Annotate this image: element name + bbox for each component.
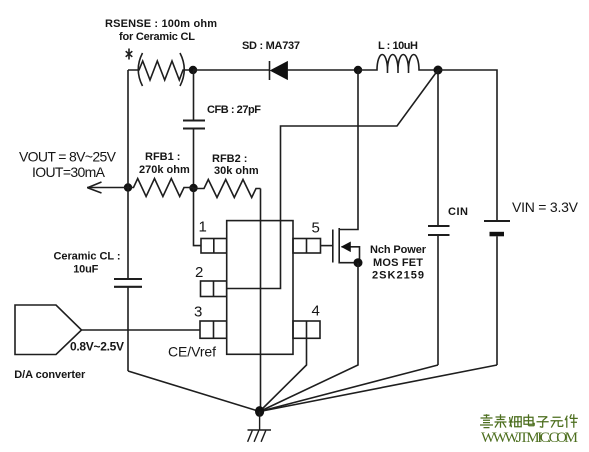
wire: CIN return diagonal to ground: [260, 365, 438, 412]
svg-text:Nch Power: Nch Power: [370, 244, 427, 256]
diode SD (MA737): [242, 40, 300, 80]
wire: top rail to VIN: [438, 70, 497, 221]
svg-text:0.8V~2.5V: 0.8V~2.5V: [70, 340, 124, 354]
node: switch node junction: [354, 66, 362, 74]
svg-text:CE/Vref: CE/Vref: [168, 344, 216, 360]
node: ground junction: [255, 406, 264, 417]
D/A converter block: [14, 305, 124, 381]
transistor Q1 Nch Power MOS FET 2SK2159: [321, 70, 427, 282]
svg-text:for Ceramic CL: for Ceramic CL: [119, 31, 195, 43]
node: L/VIN junction: [434, 66, 443, 75]
wire: CL diagonal to ground: [128, 371, 260, 412]
resistor RFB1 270k: [128, 151, 194, 197]
svg-text:2SK2159: 2SK2159: [372, 270, 424, 282]
svg-text:1: 1: [199, 219, 207, 236]
svg-text:IOUT=30mA: IOUT=30mA: [32, 164, 106, 180]
svg-text:2: 2: [195, 264, 203, 281]
pin 1: [194, 188, 227, 253]
svg-text:CIN: CIN: [448, 206, 468, 218]
capacitor Ceramic CL 10uF: [54, 251, 143, 372]
ground: [248, 412, 272, 442]
svg-text:L : 10uH: L : 10uH: [378, 40, 418, 52]
svg-text:5: 5: [312, 220, 320, 237]
svg-text:4: 4: [312, 303, 320, 320]
node: FB node junction: [189, 184, 197, 192]
svg-text:WWW.JTMIC.COM: WWW.JTMIC.COM: [481, 430, 578, 446]
svg-text:RFB2 :: RFB2 :: [212, 153, 247, 165]
pin 2: [195, 264, 227, 297]
pin 5: [293, 220, 321, 254]
pin 3: [168, 304, 227, 360]
svg-text:VIN = 3.3V: VIN = 3.3V: [512, 199, 579, 215]
op-amp U1 (IC body): [227, 221, 293, 355]
VOUT output arrow: [19, 149, 128, 194]
capacitor CIN: [428, 70, 468, 365]
wire: L junction to pin 2 (over IC): [227, 70, 438, 289]
node: VOUT junction: [124, 183, 132, 191]
wire: source to ground: [260, 263, 358, 412]
svg-text:RSENSE : 100m ohm: RSENSE : 100m ohm: [105, 18, 217, 30]
inductor L 10uH: [358, 40, 438, 73]
svg-text:VOUT = 8V~25V: VOUT = 8V~25V: [19, 149, 117, 165]
watermark: WWW.JTMIC.COM: [481, 430, 578, 446]
capacitor CFB 27pF: [183, 70, 261, 188]
battery VIN 3.3V: [484, 199, 579, 365]
svg-text:CFB : 27pF: CFB : 27pF: [207, 104, 261, 116]
svg-text:270k ohm: 270k ohm: [139, 164, 190, 176]
svg-text:30k ohm: 30k ohm: [214, 165, 259, 177]
svg-text:10uF: 10uF: [73, 264, 98, 276]
svg-text:SD : MA737: SD : MA737: [242, 40, 300, 52]
node: RSENSE/diode/CFB junction: [189, 66, 197, 74]
resistor RSENSE: [105, 18, 217, 86]
pin 4: [293, 303, 320, 339]
wire: ground line through IC: [260, 189, 262, 412]
wire: pin 4 to ground: [260, 338, 307, 411]
svg-text:MOS FET: MOS FET: [373, 257, 423, 269]
wire: VIN return diagonal to ground: [260, 365, 497, 412]
resistor RFB2 30k: [194, 153, 261, 198]
wire: junction to diode: [193, 69, 269, 71]
svg-text:Ceramic CL :: Ceramic CL :: [54, 251, 121, 263]
watermark: 嘉泰姆电子元件 (drawn strokes): [480, 414, 578, 428]
svg-text:D/A converter: D/A converter: [14, 369, 86, 381]
svg-text:3: 3: [194, 304, 202, 321]
wire: D/A to pin 3: [82, 329, 201, 331]
node: MOSFET source junction: [354, 258, 363, 267]
svg-text:RFB1 :: RFB1 :: [145, 151, 180, 163]
wire: diode to switch node: [288, 69, 359, 71]
wire: VOUT vertical rail: [127, 70, 129, 279]
